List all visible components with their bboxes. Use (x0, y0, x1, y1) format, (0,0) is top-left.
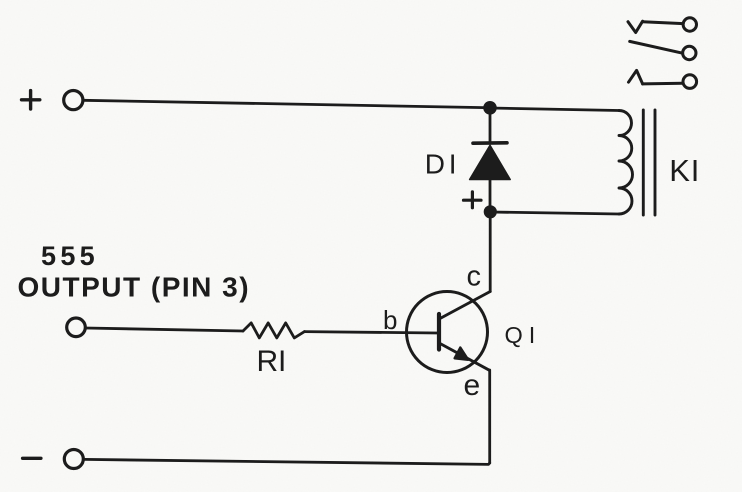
relay contact common: terminal circle (683, 46, 696, 59)
terminal circle positive supply (64, 91, 83, 110)
relay contact NC: lead wire (643, 22, 684, 24)
wire positive rail to node A (84, 100, 485, 107)
svg-text:Q: Q (505, 322, 523, 348)
svg-text:b: b (383, 305, 397, 335)
transistor Q1 body circle (407, 292, 488, 373)
relay contact NC: terminal circle (683, 18, 696, 31)
transistor Q1 emitter lead (diagonal out of circle) (440, 344, 490, 371)
svg-text:K: K (669, 153, 690, 188)
svg-text:555: 555 (41, 241, 99, 271)
terminal circle negative supply (64, 450, 83, 469)
wire relay coil bottom to node B (490, 212, 619, 214)
node A junction (top of D1 / relay coil) (483, 101, 497, 115)
wire 555 output terminal to R1 (86, 328, 244, 331)
relay K1 coil (619, 111, 633, 215)
transistor Q1 base bar (437, 314, 441, 350)
transistor Q1 collector lead (diagonal into circle) (440, 292, 490, 319)
relay contact NO: terminal circle (683, 75, 697, 89)
diode D1 cathode bar (473, 141, 507, 145)
wire emitter down to negative rail corner (488, 370, 491, 463)
resistor R1 zigzag (243, 323, 305, 338)
svg-text:R: R (257, 345, 279, 378)
wire node A to relay coil top (490, 108, 619, 111)
+ polarity sign (positive supply) (22, 91, 40, 109)
wire negative rail (bottom) (84, 459, 490, 464)
svg-text:e: e (464, 369, 481, 402)
+ polarity sign at D1 anode (464, 192, 482, 208)
svg-text:D: D (425, 148, 445, 179)
relay contact common arm (pole) (630, 41, 683, 53)
terminal circle 555 output (67, 318, 86, 337)
svg-text:OUTPUT (PIN 3): OUTPUT (PIN 3) (18, 271, 251, 302)
svg-text:I: I (691, 153, 700, 188)
wire D1 anode to node B (489, 180, 492, 208)
relay contact NO: bent end (caret) (629, 70, 643, 84)
svg-text:I: I (529, 322, 536, 348)
svg-text:I: I (449, 148, 457, 179)
wire node B down to Q1 collector lead (489, 212, 492, 292)
relay contact NC: bent end (V) (628, 21, 643, 32)
svg-text:c: c (467, 260, 482, 292)
wire node A down to D1 cathode (489, 108, 492, 143)
- polarity sign (negative supply) (23, 457, 41, 460)
relay K1 core bar 2 (654, 110, 657, 215)
diode D1 triangle (anode, pointing up) (470, 145, 511, 179)
relay contact NO: lead wire (643, 82, 683, 86)
wire R1 to Q1 base (305, 332, 438, 333)
svg-text:I: I (278, 345, 286, 378)
transistor Q1 emitter arrowhead (455, 348, 469, 360)
node B junction (D1 anode / coil bottom / Q1 collector) (484, 205, 497, 218)
relay K1 core bar 1 (642, 110, 645, 215)
